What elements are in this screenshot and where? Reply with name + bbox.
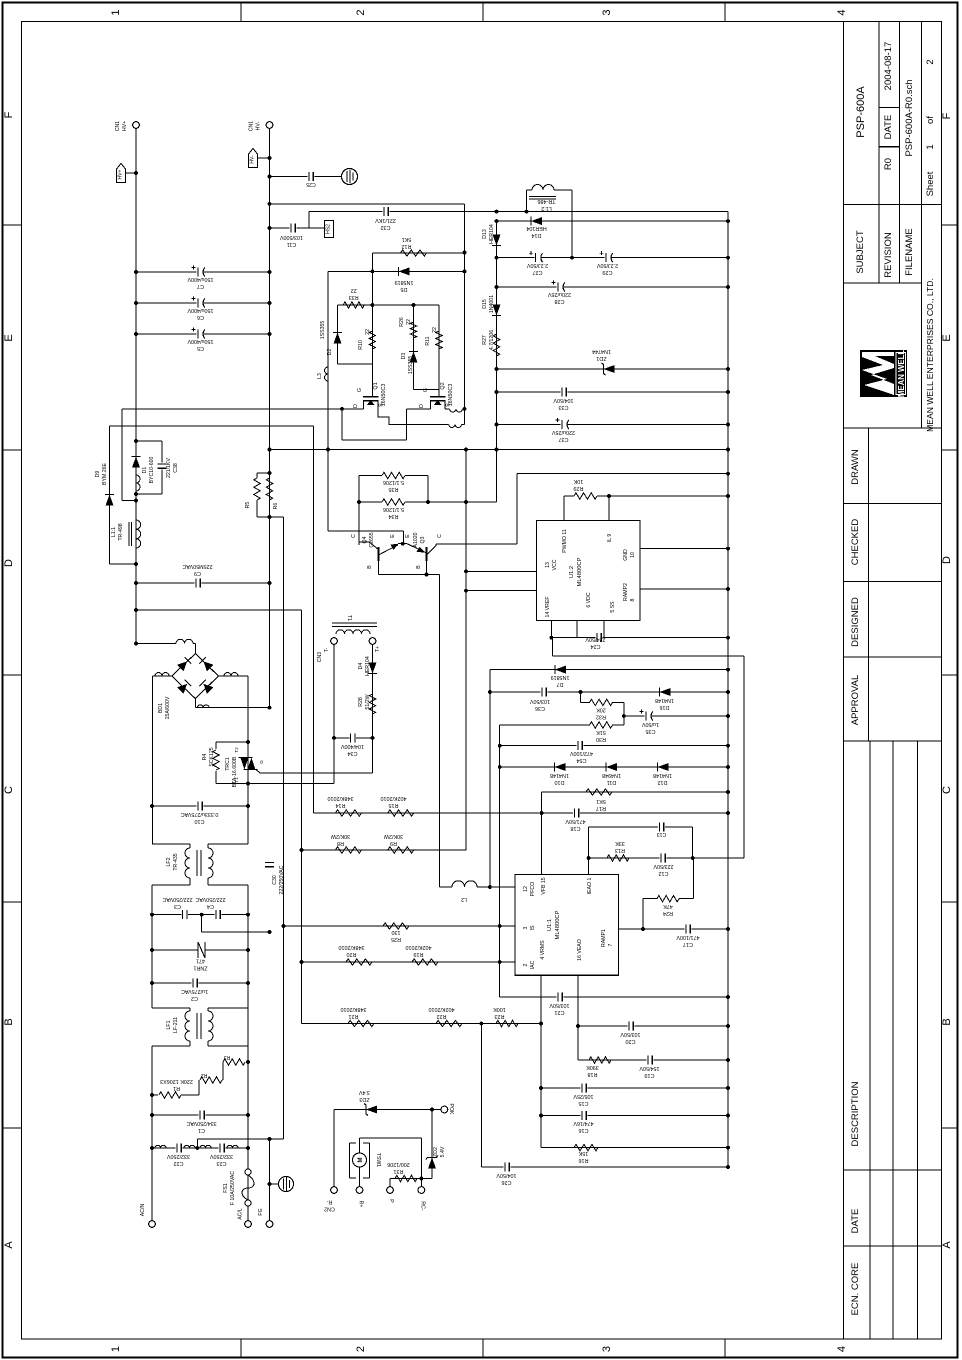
svg-text:C37: C37 xyxy=(559,436,569,442)
diode D15 1N4001 xyxy=(493,305,501,316)
bridge diode top-right xyxy=(203,661,213,671)
svg-text:220u/25V: 220u/25V xyxy=(552,429,575,435)
svg-text:D7: D7 xyxy=(557,681,564,687)
svg-text:1N4148: 1N4148 xyxy=(550,772,569,778)
wire bridge bottom xyxy=(194,699,196,708)
svg-text:C5: C5 xyxy=(197,345,204,351)
svg-text:D13: D13 xyxy=(482,229,488,239)
ground earth symbol xyxy=(270,1183,279,1185)
capacitor C22 C23 line filter xyxy=(152,1147,248,1149)
svg-text:C19: C19 xyxy=(645,1072,655,1078)
inductor sense winding b xyxy=(449,424,462,427)
diode D10 1N4148 xyxy=(500,766,728,768)
diode D3 1SS355 xyxy=(410,352,418,363)
svg-text:C13: C13 xyxy=(657,831,667,837)
svg-text:MEAN WELL: MEAN WELL xyxy=(897,350,906,397)
svg-text:348K/2010: 348K/2010 xyxy=(327,795,353,801)
capacitor C37 xyxy=(497,424,729,426)
svg-text:ZD2: ZD2 xyxy=(433,1147,439,1157)
svg-text:F: F xyxy=(941,112,953,119)
switch TSW1 xyxy=(360,1137,422,1139)
svg-text:U1:2: U1:2 xyxy=(569,566,575,578)
wire xyxy=(257,472,270,474)
svg-text:IEAO 1: IEAO 1 xyxy=(587,878,593,895)
bridge diode bottom-left xyxy=(177,684,187,694)
svg-text:B: B xyxy=(3,1018,15,1025)
svg-text:R24: R24 xyxy=(663,910,673,916)
svg-text:6 VDC: 6 VDC xyxy=(586,592,592,608)
svg-text:R+: R+ xyxy=(358,1201,364,1208)
svg-text:C4: C4 xyxy=(207,903,214,909)
wire bases xyxy=(379,574,440,576)
svg-text:U1:1: U1:1 xyxy=(547,919,553,931)
svg-text:1SS355: 1SS355 xyxy=(320,321,326,340)
svg-text:R10: R10 xyxy=(358,340,364,350)
svg-text:R9: R9 xyxy=(390,840,397,846)
wire xyxy=(333,644,335,783)
title block grid xyxy=(844,204,942,206)
wire bridge left xyxy=(153,675,172,677)
svg-text:C3: C3 xyxy=(174,903,181,909)
svg-text:GND: GND xyxy=(623,549,629,561)
svg-text:D5: D5 xyxy=(401,286,408,292)
svg-text:3: 3 xyxy=(523,926,529,929)
resistor R12 xyxy=(372,252,464,254)
svg-text:4: 4 xyxy=(836,9,848,15)
wire HV- return rail upper xyxy=(464,204,466,409)
connector CN1 HV+ terminal xyxy=(133,122,140,129)
svg-text:R8: R8 xyxy=(337,840,344,846)
svg-text:DESCRIPTION: DESCRIPTION xyxy=(850,1081,861,1146)
svg-text:2: 2 xyxy=(523,963,529,966)
svg-text:G: G xyxy=(357,388,363,392)
svg-text:R5: R5 xyxy=(245,502,251,509)
capacitor C13 and R13 C12 network xyxy=(589,826,693,828)
svg-text:R29: R29 xyxy=(574,485,584,491)
diode D12 1N4148 xyxy=(658,763,669,771)
svg-text:D12: D12 xyxy=(658,779,668,785)
svg-text:D3: D3 xyxy=(401,353,407,360)
transistor Q2 16N50C3 xyxy=(438,345,440,397)
svg-text:BD1: BD1 xyxy=(158,703,164,713)
svg-text:471/100V: 471/100V xyxy=(676,934,699,940)
svg-text:1: 1 xyxy=(925,144,936,149)
resistor R28 xyxy=(369,694,375,714)
resistor R22 xyxy=(436,1020,462,1026)
resistor R9 xyxy=(388,847,414,853)
svg-text:332/250V: 332/250V xyxy=(210,1153,233,1159)
svg-text:R2: R2 xyxy=(201,1072,208,1078)
svg-text:C: C xyxy=(437,534,443,538)
svg-text:R31: R31 xyxy=(394,1168,404,1174)
svg-text:CN3: CN3 xyxy=(317,652,323,662)
svg-text:14 VREF: 14 VREF xyxy=(545,596,551,617)
svg-text:IAC: IAC xyxy=(530,960,536,969)
wire xyxy=(489,670,491,888)
svg-text:AC/N: AC/N xyxy=(140,1204,146,1217)
svg-text:IL 9: IL 9 xyxy=(607,534,613,543)
svg-text:ML4800CP: ML4800CP xyxy=(555,910,561,939)
diode D2 1SS355 xyxy=(337,305,339,364)
wire emitters xyxy=(398,543,407,545)
svg-text:1N5819: 1N5819 xyxy=(395,279,414,285)
svg-text:103/50V: 103/50V xyxy=(549,1002,569,1008)
svg-text:1N5819: 1N5819 xyxy=(551,674,570,680)
capacitor C21 xyxy=(499,962,501,997)
svg-text:HV+: HV+ xyxy=(118,169,124,179)
svg-text:R27: R27 xyxy=(482,335,488,345)
svg-text:104/400V: 104/400V xyxy=(341,743,364,749)
svg-text:TR-486: TR-486 xyxy=(538,198,556,204)
svg-text:33K: 33K xyxy=(615,840,625,846)
diode D5 1N5819 xyxy=(328,270,465,272)
svg-text:348K/2010: 348K/2010 xyxy=(338,944,364,950)
svg-text:TSW1: TSW1 xyxy=(375,1153,381,1168)
op-amp U1:1 ML4800CP xyxy=(515,875,618,976)
svg-text:B: B xyxy=(367,565,373,569)
svg-text:R19: R19 xyxy=(414,951,424,957)
transistor Q1 16N50C3 xyxy=(371,355,373,397)
svg-text:BYM.26E: BYM.26E xyxy=(102,463,108,485)
svg-text:390K: 390K xyxy=(586,1064,599,1070)
svg-text:T2: T2 xyxy=(234,747,239,753)
svg-text:D16: D16 xyxy=(660,704,670,710)
svg-text:R12: R12 xyxy=(402,243,412,249)
svg-text:RAMP2: RAMP2 xyxy=(623,583,629,601)
svg-text:1N4744: 1N4744 xyxy=(592,348,611,354)
svg-text:5.4V: 5.4V xyxy=(440,1146,446,1157)
svg-text:E: E xyxy=(405,534,411,538)
resistor R26 xyxy=(413,305,415,352)
svg-text:474/16V: 474/16V xyxy=(573,1120,593,1126)
svg-text:PSP-600A-R0.sch: PSP-600A-R0.sch xyxy=(904,79,915,156)
svg-text:BYC10-600: BYC10-600 xyxy=(149,456,155,483)
svg-text:150u/400V: 150u/400V xyxy=(187,307,213,313)
resistor R1 xyxy=(152,1094,158,1096)
svg-text:R32: R32 xyxy=(596,714,606,720)
resistor R8 xyxy=(302,849,467,851)
svg-text:C21: C21 xyxy=(555,1009,565,1015)
resistor R5 xyxy=(256,473,258,478)
svg-text:R14: R14 xyxy=(336,802,346,808)
svg-text:3: 3 xyxy=(601,1346,613,1352)
wire RAMP2 pin xyxy=(640,588,728,590)
terminal POK xyxy=(430,1108,434,1112)
terminal R- xyxy=(331,1187,338,1194)
transistor Q4 C2655 xyxy=(378,547,380,561)
svg-text:LF2: LF2 xyxy=(166,857,172,866)
svg-text:D9: D9 xyxy=(95,471,101,478)
svg-text:T1: T1 xyxy=(346,615,352,621)
capacitor C9 xyxy=(136,582,270,584)
wire VRMS xyxy=(540,975,542,1147)
wire xyxy=(151,885,153,1008)
svg-text:4: 4 xyxy=(836,1346,848,1352)
wire bridge right xyxy=(218,675,248,677)
zone tick marks bottom xyxy=(240,1339,242,1358)
svg-text:C2: C2 xyxy=(191,995,198,1001)
svg-text:R4: R4 xyxy=(202,754,208,761)
svg-text:C17: C17 xyxy=(683,941,693,947)
svg-text:C38: C38 xyxy=(173,463,179,473)
svg-text:R11: R11 xyxy=(425,336,431,345)
capacitor C1 xyxy=(152,1114,248,1116)
svg-text:47K: 47K xyxy=(663,903,673,909)
svg-text:222/250VAC: 222/250VAC xyxy=(279,865,285,894)
diode D7 1N5819 xyxy=(490,669,728,671)
capacitor C15 xyxy=(541,1087,728,1089)
svg-text:D14: D14 xyxy=(532,232,542,238)
wire RAMP1 xyxy=(618,928,643,930)
svg-text:FILENAME: FILENAME xyxy=(904,228,915,276)
svg-text:TR-498: TR-498 xyxy=(118,523,124,540)
resistor R29 xyxy=(563,496,565,521)
resistor R16 xyxy=(541,1147,728,1149)
svg-text:3.4V: 3.4V xyxy=(359,1089,370,1095)
svg-text:C16: C16 xyxy=(579,1127,589,1133)
inductor L3 xyxy=(327,271,329,531)
svg-text:T+: T+ xyxy=(375,646,381,652)
capacitor C10 xyxy=(152,805,248,807)
capacitor C24 xyxy=(550,621,552,638)
svg-text:C11: C11 xyxy=(287,241,297,247)
inductor L1:2 TR-486 xyxy=(526,190,528,212)
svg-text:VFB 15: VFB 15 xyxy=(541,877,547,894)
svg-text:C6: C6 xyxy=(197,314,204,320)
svg-text:51K: 51K xyxy=(596,729,606,735)
svg-text:5.1/1206: 5.1/1206 xyxy=(383,506,404,512)
svg-text:5 SS: 5 SS xyxy=(610,601,616,613)
svg-text:2: 2 xyxy=(355,9,367,15)
zone tick marks right xyxy=(942,224,958,226)
diode D2 bottom link xyxy=(338,363,373,365)
diode D16 1N4148 xyxy=(660,688,671,696)
svg-text:DRAWN: DRAWN xyxy=(850,449,861,485)
svg-text:A: A xyxy=(941,1241,953,1249)
svg-text:LF1: LF1 xyxy=(166,1020,172,1029)
capacitor C26 xyxy=(480,1024,482,1168)
capacitor C34 xyxy=(334,737,373,739)
svg-text:TRC1: TRC1 xyxy=(225,757,231,771)
resistor R23 xyxy=(481,1023,541,1025)
svg-text:B: B xyxy=(416,565,422,569)
svg-text:1N4148: 1N4148 xyxy=(653,772,672,778)
svg-text:51/2W: 51/2W xyxy=(365,694,371,709)
wire xyxy=(420,1138,422,1187)
svg-text:C1: C1 xyxy=(198,1127,205,1133)
varistor ZNR1 xyxy=(152,949,248,951)
svg-text:D: D xyxy=(419,404,425,408)
svg-text:22: 22 xyxy=(365,329,371,335)
svg-text:C33: C33 xyxy=(559,404,569,410)
svg-text:1N4948: 1N4948 xyxy=(602,772,621,778)
svg-text:C25: C25 xyxy=(306,181,316,187)
terminal RC- xyxy=(418,1187,425,1194)
svg-text:D1: D1 xyxy=(142,467,148,474)
capacitor C27 / C29 rail xyxy=(497,257,729,259)
svg-text:5K1: 5K1 xyxy=(596,798,606,804)
capacitor C35 xyxy=(624,715,728,717)
svg-text:C22: C22 xyxy=(174,1160,184,1166)
svg-text:0.333u/275VAC: 0.333u/275VAC xyxy=(181,811,219,817)
svg-text:FS1: FS1 xyxy=(223,1183,229,1193)
choke LF1 LF-211 xyxy=(152,1007,190,1009)
svg-text:HER104: HER104 xyxy=(489,224,495,244)
svg-text:C32: C32 xyxy=(381,224,391,230)
svg-text:103/500V: 103/500V xyxy=(280,234,303,240)
wire HV- to boost rail xyxy=(270,203,465,205)
zone tick marks top xyxy=(240,3,242,22)
svg-text:C29: C29 xyxy=(603,269,613,275)
svg-text:8: 8 xyxy=(630,598,636,601)
svg-text:SUBJECT: SUBJECT xyxy=(855,230,866,273)
resistor R20 xyxy=(346,959,372,965)
transistor Q3 A1020 xyxy=(426,547,428,561)
wire xyxy=(358,476,360,546)
svg-text:FG: FG xyxy=(258,1208,264,1215)
svg-text:221/1KV: 221/1KV xyxy=(166,458,172,478)
resistor R14 xyxy=(335,810,361,816)
bridge rectifier BD1 xyxy=(172,654,219,699)
svg-text:C54: C54 xyxy=(577,757,587,763)
svg-text:ML4800CP: ML4800CP xyxy=(577,557,583,586)
svg-text:R18: R18 xyxy=(588,1071,598,1077)
svg-text:2.2J/50V: 2.2J/50V xyxy=(596,262,618,268)
svg-text:10: 10 xyxy=(630,552,636,558)
svg-text:DATE: DATE xyxy=(883,115,894,140)
svg-text:D11: D11 xyxy=(607,779,617,785)
zener ZD3 3.4V xyxy=(334,1109,432,1111)
wire aux supply top xyxy=(309,211,728,213)
svg-text:2: 2 xyxy=(355,1346,367,1352)
transformer T1 symbol xyxy=(332,622,377,624)
svg-text:F 10A/250VAC: F 10A/250VAC xyxy=(230,1171,236,1205)
fuse FS1 xyxy=(245,1169,251,1175)
svg-text:1u/50V: 1u/50V xyxy=(642,721,659,727)
wire xyxy=(110,425,314,427)
svg-text:ZNR1: ZNR1 xyxy=(193,965,207,971)
terminal FG xyxy=(266,1221,273,1228)
svg-text:C12: C12 xyxy=(659,870,669,876)
resistor R10 xyxy=(371,305,373,362)
svg-text:HV-: HV- xyxy=(256,121,262,130)
svg-text:C18: C18 xyxy=(571,825,581,831)
svg-text:Q1: Q1 xyxy=(373,382,379,389)
svg-text:100K: 100K xyxy=(493,1006,506,1012)
resistor R24 xyxy=(642,899,644,929)
svg-text:ZD3: ZD3 xyxy=(359,1096,369,1102)
svg-text:105/25V: 105/25V xyxy=(573,1093,593,1099)
svg-text:TR-435: TR-435 xyxy=(173,853,179,870)
svg-text:15A/600V: 15A/600V xyxy=(165,696,171,719)
svg-text:LF-211: LF-211 xyxy=(173,1017,179,1033)
svg-text:ECN. CORE: ECN. CORE xyxy=(850,1263,861,1316)
svg-text:D: D xyxy=(941,556,953,564)
svg-text:R35: R35 xyxy=(389,486,399,492)
svg-text:D4: D4 xyxy=(358,663,364,670)
svg-text:R26: R26 xyxy=(399,317,405,327)
svg-text:HS2: HS2 xyxy=(326,224,332,234)
svg-text:SCK125: SCK125 xyxy=(209,747,215,766)
capacitor C17 xyxy=(643,928,728,930)
resistor R3 xyxy=(246,1061,248,1063)
wire GND pin xyxy=(640,548,728,550)
resistor R34 xyxy=(359,501,382,503)
svg-text:R21: R21 xyxy=(349,1013,359,1019)
svg-text:R25: R25 xyxy=(391,936,401,942)
capacitor C5 xyxy=(136,333,270,335)
svg-text:200/1206: 200/1206 xyxy=(387,1161,409,1167)
svg-text:348K/2010: 348K/2010 xyxy=(340,1006,366,1012)
svg-text:L2: L2 xyxy=(461,896,467,902)
svg-text:R23: R23 xyxy=(495,1013,505,1019)
zener ZD2 5.4V xyxy=(431,1110,433,1179)
wire bridge top feed xyxy=(136,643,176,645)
node HV- flag xyxy=(249,149,258,168)
svg-text:16 VEAO: 16 VEAO xyxy=(577,939,583,961)
svg-text:T-: T- xyxy=(324,647,330,652)
svg-text:CN1: CN1 xyxy=(115,121,121,131)
svg-text:CN1: CN1 xyxy=(249,121,255,131)
resistor R17 xyxy=(542,791,728,793)
svg-text:PFCO: PFCO xyxy=(530,882,536,896)
svg-text:3: 3 xyxy=(601,9,613,15)
svg-text:C34: C34 xyxy=(348,750,358,756)
svg-text:104/50V: 104/50V xyxy=(496,1172,516,1178)
resistor R25 xyxy=(383,923,409,929)
resistor R27 xyxy=(493,334,499,356)
svg-text:HV+: HV+ xyxy=(122,121,128,131)
svg-text:RC-: RC- xyxy=(419,1201,425,1210)
diode D11 1N4948 xyxy=(606,763,617,771)
wire IAC pin xyxy=(302,961,516,963)
mean well logo xyxy=(860,350,907,397)
svg-text:E: E xyxy=(3,334,15,341)
svg-text:C9: C9 xyxy=(194,570,201,576)
triac TRC1 with R4 xyxy=(216,741,248,743)
diode D1 BYC10-600 with C38 xyxy=(136,440,162,442)
capacitor C6 xyxy=(136,302,270,304)
svg-text:15K: 15K xyxy=(578,1150,588,1156)
bridge diode bottom-right xyxy=(203,684,213,694)
svg-text:G: G xyxy=(259,760,264,764)
capacitor C3 xyxy=(152,914,248,916)
svg-text:AC/L: AC/L xyxy=(238,1208,244,1220)
capacitor C33 xyxy=(497,391,729,393)
connector CN3 T- T+ xyxy=(331,638,338,645)
svg-text:POK: POK xyxy=(448,1104,454,1115)
svg-text:E: E xyxy=(941,334,953,341)
svg-text:C15: C15 xyxy=(579,1100,589,1106)
svg-text:R6: R6 xyxy=(273,503,279,510)
zener ZD1 1N4744 xyxy=(497,368,729,370)
svg-text:Sheet: Sheet xyxy=(925,171,936,196)
svg-text:402K/2010: 402K/2010 xyxy=(428,1006,454,1012)
svg-text:C: C xyxy=(941,786,953,794)
svg-text:R28: R28 xyxy=(358,697,364,707)
diode D13 HER104 xyxy=(496,221,498,502)
resistor R15 xyxy=(388,810,414,816)
svg-text:103/50V: 103/50V xyxy=(530,698,550,704)
svg-text:M: M xyxy=(358,1158,364,1163)
wire xyxy=(247,885,249,1221)
svg-text:16N50C3: 16N50C3 xyxy=(381,384,387,407)
capacitor C4 xyxy=(215,914,222,916)
capacitor C32 xyxy=(383,211,390,213)
inductor L2 xyxy=(440,886,453,888)
ground chassis symbol xyxy=(342,169,358,185)
resistor R6 xyxy=(266,478,272,500)
